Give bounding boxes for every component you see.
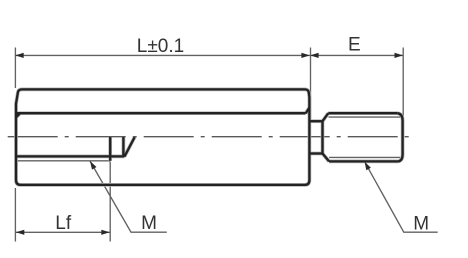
svg-text:M: M: [413, 214, 429, 235]
svg-text:M: M: [141, 213, 157, 234]
svg-text:Lf: Lf: [55, 213, 72, 234]
svg-text:L±0.1: L±0.1: [137, 36, 184, 57]
svg-text:E: E: [348, 35, 361, 56]
